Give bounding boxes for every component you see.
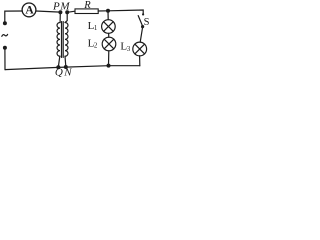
lamp L3 (133, 42, 147, 56)
wire junction to switch corner (108, 10, 143, 15)
terminal dot lower (3, 46, 7, 50)
svg-text:Q: Q (55, 67, 63, 79)
transformer secondary stub M (65, 12, 67, 22)
switch S blade (138, 16, 142, 27)
wire switch to lamp L3 (140, 28, 142, 42)
lamp L2 stub to bottom wire (108, 51, 110, 65)
wire resistor to junction (98, 10, 108, 12)
switch S fixed contact (142, 13, 144, 15)
transformer secondary winding (65, 23, 68, 57)
transformer secondary stub N (64, 56, 67, 66)
svg-text:1: 1 (94, 24, 98, 32)
ammeter U1 circle (22, 3, 36, 17)
svg-text:R: R (83, 0, 91, 11)
svg-text:S: S (144, 17, 150, 28)
node Q (56, 65, 60, 69)
svg-text:3: 3 (127, 45, 131, 53)
node junction bottom (107, 64, 111, 68)
lamp L3 stub to bottom wire (139, 56, 141, 66)
wire left vertical lower (4, 49, 6, 70)
wire ammeter to node P (36, 11, 60, 12)
transformer primary stub P (59, 12, 61, 22)
terminal dot upper (3, 21, 7, 25)
transformer core (61, 22, 63, 58)
lamp L1 (102, 20, 116, 34)
svg-text:N: N (63, 67, 72, 79)
node N (64, 65, 68, 69)
transformer primary stub Q (58, 56, 59, 66)
wire top-left corner to ammeter (5, 11, 23, 23)
wire L1 to L2 (108, 33, 110, 37)
AC source tilde (2, 34, 8, 36)
node junction top (106, 9, 110, 13)
transformer primary winding (57, 23, 60, 57)
svg-text:2: 2 (94, 42, 98, 50)
svg-text:P: P (52, 1, 60, 13)
svg-text:M: M (59, 0, 70, 12)
wire bottom horizontal (5, 66, 140, 70)
switch S pivot dot (141, 25, 144, 28)
node M (65, 10, 69, 14)
lamp L2 (102, 37, 116, 51)
wire node M to resistor (67, 11, 75, 12)
svg-text:A: A (25, 4, 34, 16)
resistor R body (75, 9, 98, 14)
lamp L1 stub (107, 11, 109, 20)
node P (58, 10, 62, 14)
